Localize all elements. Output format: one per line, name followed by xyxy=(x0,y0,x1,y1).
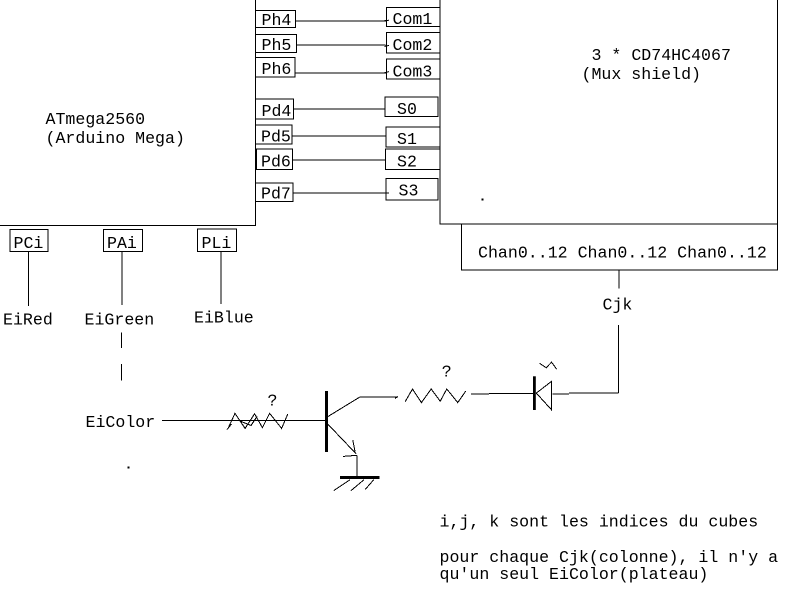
svg-text:?: ? xyxy=(268,392,278,411)
svg-text:(Mux shield): (Mux shield) xyxy=(582,65,702,84)
svg-text:i,j, k sont les indices du cub: i,j, k sont les indices du cubes xyxy=(440,513,759,532)
pin Pd6 xyxy=(256,149,293,172)
transistor Q1 collector xyxy=(328,397,398,417)
LED D1 light squiggle xyxy=(540,362,557,369)
wire diode to Cjk column xyxy=(553,325,619,394)
stray dot A xyxy=(482,199,484,201)
pin Ph6 xyxy=(256,58,296,80)
svg-text:Pd7: Pd7 xyxy=(261,185,291,204)
svg-text:S1: S1 xyxy=(397,130,417,149)
wire Pd5-S1 xyxy=(292,135,386,137)
svg-text:PAi: PAi xyxy=(107,234,137,253)
pin S0 xyxy=(385,97,438,119)
pin Ph4 xyxy=(256,11,296,31)
transistor Q1 emitter with arrow xyxy=(328,424,357,456)
wire Ph6-Com3 xyxy=(295,72,389,73)
wire EiColor to base resistor xyxy=(162,420,325,422)
note line 2 xyxy=(440,548,779,567)
wire PAi down xyxy=(121,252,123,306)
pin Ph5 xyxy=(256,35,297,56)
svg-text:Pd6: Pd6 xyxy=(261,153,291,172)
pin PLi xyxy=(198,229,237,253)
Mux U2 CD74HC4067 box xyxy=(440,0,778,224)
net label EiColor xyxy=(86,413,156,432)
wire PLi down xyxy=(220,252,222,305)
pin Com3 xyxy=(386,59,440,82)
Chan box (mux channels) xyxy=(462,224,778,270)
svg-text:EiBlue: EiBlue xyxy=(194,309,254,328)
svg-text:qu'un seul EiColor(plateau): qu'un seul EiColor(plateau) xyxy=(440,565,709,584)
svg-text:Pd5: Pd5 xyxy=(261,128,291,147)
svg-text:PLi: PLi xyxy=(202,234,232,253)
svg-text:ATmega2560: ATmega2560 xyxy=(46,110,146,129)
pin Pd5 xyxy=(256,125,293,147)
resistor R2 (collector) zigzag xyxy=(395,389,466,403)
wire Ph5-Com2 xyxy=(297,45,389,46)
wire Ph4-Com1 xyxy=(296,19,390,22)
svg-text:Ph6: Ph6 xyxy=(262,60,292,79)
ground xyxy=(334,476,380,491)
svg-text:EiColor: EiColor xyxy=(86,413,156,432)
pin Com2 xyxy=(387,33,441,56)
pin S2 xyxy=(386,149,441,172)
note line 3 xyxy=(440,565,709,584)
wire Chan box to Cjk xyxy=(618,270,620,289)
net label EiBlue xyxy=(194,309,254,328)
wire emitter to ground xyxy=(356,455,358,476)
svg-text:3 * CD74HC4067: 3 * CD74HC4067 xyxy=(592,46,731,65)
pin PCi xyxy=(10,230,48,254)
svg-text:EiGreen: EiGreen xyxy=(85,311,155,330)
svg-text:Com1: Com1 xyxy=(393,10,433,29)
svg-text:Chan0..12 Chan0..12 Chan0..12: Chan0..12 Chan0..12 Chan0..12 xyxy=(478,244,767,263)
pin Pd7 xyxy=(256,183,294,204)
Chan label Chan0..12 Chan0..12 Chan0..12 xyxy=(478,244,767,263)
MCU U1 ATmega2560 box xyxy=(0,0,256,226)
svg-text:?: ? xyxy=(442,363,452,382)
resistor R1 (base) zigzag xyxy=(227,413,288,429)
pin Com1 xyxy=(387,8,441,30)
wire Pd7-S3 xyxy=(293,192,389,194)
wire Pd4-S0 xyxy=(294,108,386,110)
pin PAi xyxy=(104,230,143,254)
svg-text:EiRed: EiRed xyxy=(3,311,53,330)
svg-text:S0: S0 xyxy=(397,100,417,119)
pin S1 xyxy=(386,127,440,149)
R2 value label ? xyxy=(442,363,452,382)
wire Pd6-S2 xyxy=(293,159,386,161)
svg-text:S3: S3 xyxy=(399,182,419,201)
dashed link EiGreen to EiColor (dash 2) xyxy=(121,364,123,381)
R1 value label ? xyxy=(268,392,278,411)
stray dot B xyxy=(128,467,130,469)
svg-text:Com3: Com3 xyxy=(393,63,433,82)
svg-text:Com2: Com2 xyxy=(393,36,433,55)
pin Pd4 xyxy=(256,99,294,121)
LED D1 (diode) xyxy=(533,376,552,410)
U2 label 3 * CD74HC4067 (Mux shield) xyxy=(582,46,731,84)
U1 label ATmega2560 (Arduino Mega) xyxy=(46,110,185,148)
svg-text:(Arduino Mega): (Arduino Mega) xyxy=(46,129,185,148)
net label EiRed xyxy=(3,311,53,330)
svg-text:Cjk: Cjk xyxy=(603,296,633,315)
svg-text:PCi: PCi xyxy=(14,234,44,253)
note line 1 xyxy=(440,513,759,532)
wire PCi down xyxy=(28,252,30,307)
wire R2 to diode (thick then thin) xyxy=(471,393,534,396)
svg-text:Pd4: Pd4 xyxy=(262,102,292,121)
net label Cjk xyxy=(603,296,633,315)
dashed link EiGreen to EiColor (dash 1) xyxy=(121,333,123,349)
net label EiGreen xyxy=(85,311,155,330)
svg-text:Ph5: Ph5 xyxy=(262,36,292,55)
svg-text:Ph4: Ph4 xyxy=(262,11,292,30)
transistor Q1 base bar xyxy=(325,391,328,452)
svg-text:S2: S2 xyxy=(397,153,417,172)
pin S3 xyxy=(386,179,438,201)
